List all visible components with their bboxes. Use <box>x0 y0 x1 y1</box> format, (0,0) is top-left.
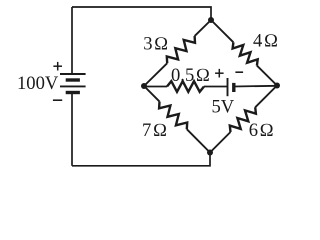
wire middle branch to battery <box>204 86 228 88</box>
wire diag bottom-left lead lower <box>187 129 210 152</box>
svg-text:4 Ω: 4 Ω <box>253 31 278 52</box>
plus sign battery 5V <box>215 69 224 78</box>
plus sign battery 100V <box>53 62 62 71</box>
minus sign battery 5V <box>235 71 243 73</box>
battery 5V <box>228 78 234 96</box>
resistor R4 4ohm <box>233 42 258 65</box>
wire diag top-left lead upper <box>195 20 211 36</box>
svg-text:3 Ω: 3 Ω <box>143 34 168 55</box>
node bottom <box>207 150 213 156</box>
wire left vertical upper <box>71 7 73 74</box>
wire top horizontal <box>72 7 211 20</box>
wire middle branch left <box>144 86 167 88</box>
wire bottom horizontal <box>72 153 210 166</box>
resistor R3 3ohm <box>167 36 195 63</box>
battery 100V <box>60 74 86 93</box>
node left <box>141 83 147 89</box>
svg-text:6 Ω: 6 Ω <box>249 120 274 141</box>
wire diag bottom-right lead lower <box>210 132 231 153</box>
wire diag top-left lead lower <box>144 63 167 86</box>
wire diag bottom-left lead upper <box>144 86 160 102</box>
node top <box>208 17 214 23</box>
node right <box>274 83 280 89</box>
svg-text:7 Ω: 7 Ω <box>142 120 167 141</box>
svg-text:100V: 100V <box>17 73 59 94</box>
wire diag top-right lead lower <box>257 66 277 86</box>
wire diag top-right lead upper <box>211 20 233 42</box>
resistor R6 6ohm <box>230 107 256 132</box>
resistor R7 7ohm <box>159 102 187 130</box>
resistor R05 0.5ohm <box>167 81 204 92</box>
svg-text:0.5 Ω: 0.5 Ω <box>171 65 210 86</box>
wire middle branch right <box>234 85 277 88</box>
wire diag bottom-right lead upper <box>255 86 277 108</box>
svg-text:5V: 5V <box>212 96 235 117</box>
wire left vertical lower <box>71 93 73 166</box>
minus sign battery 100V <box>53 99 62 101</box>
